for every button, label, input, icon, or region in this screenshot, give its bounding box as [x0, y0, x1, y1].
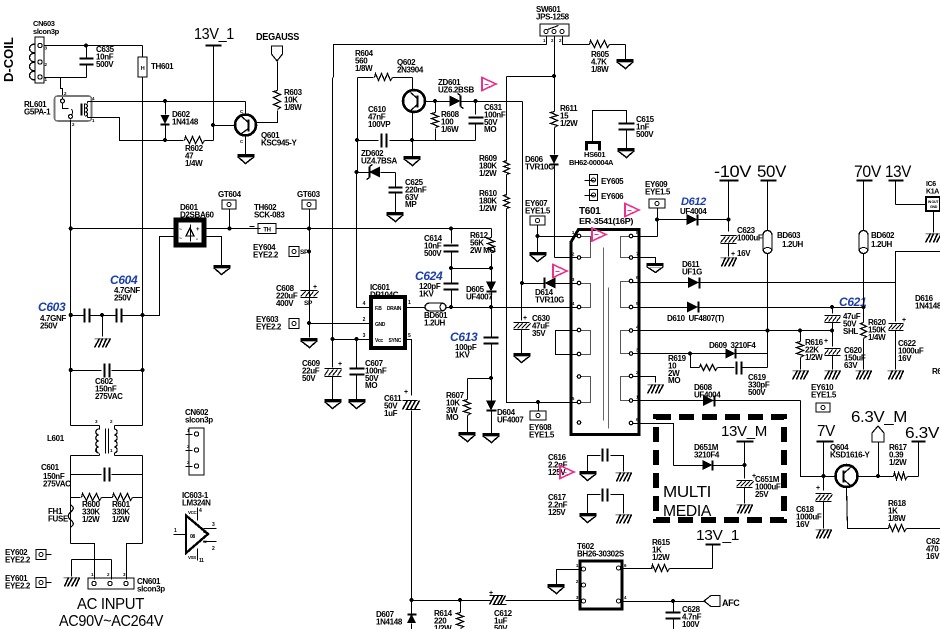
diode D604: [491, 379, 493, 401]
ground: [737, 504, 753, 506]
diode D602: [165, 102, 167, 115]
ground: [412, 141, 414, 157]
T601 windings right: [621, 237, 633, 258]
ground: [387, 212, 404, 215]
svg-text:16V: 16V: [926, 552, 940, 561]
svg-text:EY606: EY606: [601, 192, 624, 201]
svg-text:BH26-30302S: BH26-30302S: [577, 549, 625, 558]
svg-text:GND: GND: [375, 322, 386, 328]
power rail 13V_1 bottom: [712, 546, 714, 569]
svg-text:~: ~: [179, 236, 182, 242]
resistor R614: [458, 598, 462, 602]
capacitor C625: [395, 173, 397, 187]
svg-text:13V_1: 13V_1: [696, 527, 739, 544]
svg-text:GT603: GT603: [297, 190, 321, 199]
svg-text:R6: R6: [932, 367, 940, 376]
svg-text:FUSE: FUSE: [48, 514, 69, 523]
svg-text:BH62-00004A: BH62-00004A: [569, 158, 614, 167]
wire CN603 pin3: [45, 77, 87, 79]
svg-text:16V: 16V: [737, 249, 751, 258]
svg-text:LM324N: LM324N: [182, 498, 211, 507]
junction: [307, 321, 311, 325]
svg-text:1N4148: 1N4148: [376, 617, 403, 626]
pink flag C616: [560, 466, 574, 479]
svg-text:+: +: [816, 485, 820, 492]
ground: [325, 399, 342, 402]
multimedia dashed box: [656, 417, 784, 520]
zener diode ZD602: [358, 172, 370, 174]
wire ZD601 out: [461, 101, 523, 103]
wire Q602 base: [426, 101, 450, 103]
transistor Q602: [403, 90, 425, 112]
wire snubber corner down: [522, 102, 524, 284]
junction: [69, 313, 73, 317]
svg-text:1/2W: 1/2W: [889, 458, 907, 467]
junction: [726, 217, 730, 221]
resistor R616: [800, 331, 802, 342]
svg-text:11: 11: [199, 558, 204, 564]
svg-text:+: +: [902, 317, 906, 324]
svg-text:35V: 35V: [532, 329, 546, 338]
svg-text:1/8W: 1/8W: [591, 65, 609, 74]
junction: [742, 463, 746, 467]
svg-text:UZ4.7BSA: UZ4.7BSA: [361, 156, 397, 165]
junction: [671, 599, 675, 603]
svg-text:EYE1.5: EYE1.5: [529, 430, 555, 439]
connector CN603: [35, 37, 44, 83]
resistor R607: [468, 378, 492, 380]
wire Q601 base: [214, 125, 236, 127]
junction: [552, 74, 556, 78]
pink flag: [482, 78, 496, 91]
wire left vertical: [70, 229, 72, 426]
wire T601 pin4 rail: [633, 330, 833, 332]
wire SYNC line 2: [411, 411, 413, 601]
wire relay to Q601 collector: [88, 101, 246, 103]
capacitor C610: [358, 140, 379, 142]
junction: [449, 266, 453, 270]
svg-text:SHL: SHL: [843, 327, 858, 336]
svg-text:1/2W: 1/2W: [560, 119, 578, 128]
junction: [876, 474, 880, 478]
junction: [140, 313, 144, 317]
junction: [449, 226, 453, 230]
svg-text:GT604: GT604: [218, 190, 242, 199]
resistor R620: [863, 308, 865, 323]
resistor R608: [435, 102, 437, 113]
svg-text:1uF: 1uF: [384, 409, 398, 418]
wire 50V rail down: [767, 254, 769, 368]
svg-text:D610 UF4807(T): D610 UF4807(T): [667, 314, 725, 323]
capacitor C630: [521, 284, 523, 321]
transistor Q601: [235, 115, 256, 136]
wire snubber to pin5: [507, 209, 578, 403]
junction: [830, 305, 834, 309]
junction: [449, 305, 453, 309]
ground: [793, 370, 809, 372]
capacitor C631: [475, 102, 477, 115]
thermistor TH601: [142, 46, 144, 58]
capacitor C601: [71, 474, 102, 476]
wire GND line to IC601: [310, 323, 372, 325]
wire HS601 to C615: [593, 111, 627, 143]
junction: [163, 138, 167, 142]
svg-text:Vcc: Vcc: [375, 338, 383, 344]
ground: [301, 338, 318, 341]
svg-text:UF1G: UF1G: [682, 267, 702, 276]
svg-text:25V: 25V: [755, 490, 769, 499]
ground: [514, 353, 531, 356]
svg-text:125V: 125V: [548, 508, 566, 517]
wire main box vertical: [333, 45, 335, 78]
ground: [648, 384, 664, 386]
wire to T601 pin2: [555, 257, 578, 259]
svg-text:EYE2.2: EYE2.2: [253, 250, 279, 259]
svg-text:1/2W: 1/2W: [652, 553, 670, 562]
ground: [483, 433, 500, 436]
capacitor C614: [451, 229, 453, 244]
svg-text:1/2W: 1/2W: [479, 204, 497, 213]
wire snubber top: [507, 76, 555, 78]
capacitor C628: [673, 602, 675, 612]
capacitor C607: [356, 340, 358, 368]
wire C614-R612 bridge: [452, 268, 492, 270]
svg-text:1N4148: 1N4148: [172, 117, 199, 126]
svg-text:MO: MO: [484, 125, 496, 134]
zener diode ZD601: [450, 96, 461, 107]
junction: [410, 138, 414, 142]
ground: [616, 514, 632, 516]
wire CN601 pin3: [127, 544, 143, 580]
svg-text:1/2W: 1/2W: [434, 624, 452, 629]
svg-text:UF4007: UF4007: [497, 415, 524, 424]
ground: [64, 577, 80, 579]
terminal AFC: [704, 596, 720, 607]
capacitor C635: [86, 46, 88, 59]
junction: [227, 226, 231, 230]
resistor R602: [166, 140, 184, 142]
svg-text:1/2W: 1/2W: [112, 515, 130, 524]
svg-text:50V: 50V: [302, 374, 316, 383]
wire SYNC line: [406, 340, 412, 396]
wire earth: [72, 559, 112, 561]
eyelet EY605: [585, 180, 595, 182]
svg-text:TVR10G: TVR10G: [535, 295, 564, 304]
wire bottom line 2: [506, 600, 581, 602]
svg-text:400V: 400V: [276, 299, 294, 308]
heatsink HS601: [587, 143, 600, 151]
junction: [355, 138, 359, 142]
ground: [580, 471, 597, 474]
eyelet EY606: [585, 195, 595, 197]
resistor R600: [71, 497, 81, 499]
ground: [616, 472, 632, 474]
svg-text:MO: MO: [365, 381, 377, 390]
svg-text:BD603: BD603: [777, 231, 801, 240]
svg-text:1/2W: 1/2W: [479, 169, 497, 178]
resistor R619 and capacitor C619: [691, 354, 700, 368]
svg-text:275VAC: 275VAC: [43, 479, 71, 488]
svg-text:TH601: TH601: [151, 62, 174, 71]
diode D605: [491, 269, 493, 282]
svg-text:EYE2.2: EYE2.2: [5, 581, 31, 590]
inductor BD601: [425, 303, 446, 311]
svg-text:MEDIA: MEDIA: [663, 503, 712, 520]
svg-text:AFC: AFC: [722, 598, 740, 608]
resistor R617: [894, 473, 908, 480]
capacitor C608: [301, 290, 318, 292]
inductor BD603: [763, 231, 772, 254]
svg-text:2N3904: 2N3904: [397, 65, 424, 74]
svg-text:UZ6.2BSB: UZ6.2BSB: [438, 85, 474, 94]
svg-text:1/2W: 1/2W: [805, 353, 823, 362]
svg-text:1/2W: 1/2W: [82, 515, 100, 524]
svg-text:1KV: 1KV: [419, 289, 435, 298]
diode D606: [554, 128, 556, 155]
connector CN601: [88, 578, 134, 589]
ground: [825, 370, 841, 372]
T601 windings left: [579, 237, 591, 258]
resistor R610: [506, 175, 508, 196]
ground: [530, 252, 547, 255]
svg-text:500V: 500V: [424, 249, 442, 258]
svg-text:KSC945-Y: KSC945-Y: [261, 138, 297, 147]
svg-text:6.3V: 6.3V: [905, 425, 940, 442]
pink flag D614: [553, 265, 567, 278]
wire CN603 pin1 to TH601: [45, 45, 143, 47]
capacitor C615: [619, 123, 635, 125]
junction: [307, 249, 311, 253]
svg-text:MO: MO: [668, 376, 680, 385]
svg-text:250V: 250V: [40, 321, 58, 330]
svg-text:D-COIL: D-COIL: [1, 37, 16, 82]
capacitor C609: [332, 340, 334, 368]
svg-text:UF4007: UF4007: [466, 292, 493, 301]
junction: [307, 226, 311, 230]
svg-text:IN OUT: IN OUT: [928, 200, 939, 204]
wire T602 pin4 line: [622, 601, 705, 603]
ground: [548, 584, 565, 587]
svg-text:SCK-083: SCK-083: [254, 210, 285, 219]
wire T602 pin1 gnd: [557, 570, 582, 585]
junction: [163, 99, 167, 103]
resistor R604: [358, 77, 374, 79]
ground: [617, 59, 634, 62]
wire T601 aux loop: [556, 331, 578, 355]
svg-text:~: ~: [179, 227, 182, 233]
svg-text:L601: L601: [47, 434, 65, 443]
ground: [926, 233, 940, 235]
resistor R612: [491, 229, 493, 238]
ground: [459, 432, 476, 435]
wire CN601 pin1: [71, 544, 95, 580]
pink flag T601: [592, 228, 606, 241]
svg-text:13V_1: 13V_1: [194, 26, 234, 43]
svg-text:C621: C621: [839, 295, 867, 309]
svg-text:DEGAUSS: DEGAUSS: [256, 31, 299, 43]
svg-text:TH: TH: [263, 228, 270, 234]
svg-text:100VP: 100VP: [368, 120, 391, 129]
wire bridge minus to gnd: [205, 237, 222, 266]
svg-text:2W MO: 2W MO: [470, 246, 495, 255]
ground: [721, 257, 737, 259]
wire right vertical 2: [142, 456, 144, 544]
ground: [580, 513, 597, 516]
power rail 6.3V: [918, 442, 920, 477]
svg-text:1000uF: 1000uF: [737, 233, 763, 242]
svg-text:VSS: VSS: [188, 555, 196, 560]
svg-text:JPS-1258: JPS-1258: [536, 12, 570, 21]
junction: [84, 43, 88, 47]
diode D614: [523, 283, 545, 285]
svg-text:MP: MP: [405, 200, 417, 209]
svg-text:+: +: [523, 315, 527, 322]
diode D610: [633, 307, 688, 309]
diode D607: [411, 601, 413, 614]
junction: [211, 123, 215, 127]
svg-text:AC90V~AC264V: AC90V~AC264V: [59, 613, 164, 629]
resistor R611: [554, 77, 556, 112]
wire drain line 2: [447, 307, 578, 309]
wire bridge ac2: [143, 237, 177, 316]
svg-text:13V: 13V: [885, 163, 911, 181]
wire drain line: [406, 307, 426, 309]
wire relay aux: [88, 118, 166, 141]
svg-text:EYE1.5: EYE1.5: [811, 390, 837, 399]
svg-text:EYE2.2: EYE2.2: [256, 322, 282, 331]
svg-text:BD602: BD602: [871, 231, 895, 240]
wire right vertical: [142, 316, 144, 426]
svg-text:DRAIN: DRAIN: [387, 306, 402, 312]
svg-text:D609 3210F4: D609 3210F4: [709, 341, 756, 350]
svg-text:13V_M: 13V_M: [721, 423, 767, 440]
T601 core lines: [603, 248, 605, 421]
svg-text:AC INPUT: AC INPUT: [77, 596, 145, 613]
wire to relay coil: [61, 78, 63, 100]
junction: [535, 234, 539, 238]
junction: [688, 351, 692, 355]
svg-text:C624: C624: [415, 269, 443, 283]
svg-text:1/8W: 1/8W: [355, 64, 373, 73]
svg-text:500V: 500V: [96, 60, 114, 69]
resistor R609: [506, 77, 508, 162]
junction: [520, 281, 524, 285]
svg-text:EYE1.5: EYE1.5: [645, 187, 671, 196]
svg-text:63V: 63V: [844, 361, 858, 370]
svg-text:500V: 500V: [636, 130, 654, 139]
svg-text:1.2UH: 1.2UH: [424, 318, 445, 327]
svg-text:EYE1.5: EYE1.5: [525, 206, 551, 215]
wire corner to right edge: [896, 252, 940, 283]
svg-text:C601: C601: [41, 463, 60, 472]
svg-text:08: 08: [190, 534, 195, 540]
pink flag above T601: [625, 204, 639, 217]
junction: [473, 99, 477, 103]
resistor R605: [590, 41, 610, 48]
ground: [102, 316, 104, 337]
wire left vertical 2: [70, 456, 72, 544]
wire EY607 to pin1: [538, 236, 578, 238]
svg-text:100V: 100V: [682, 620, 700, 629]
wire TH601 down: [142, 78, 144, 316]
svg-text:1N4148: 1N4148: [915, 301, 940, 310]
svg-text:3210F4: 3210F4: [694, 450, 720, 459]
junction: [765, 328, 769, 332]
resistor R603: [274, 91, 281, 110]
junction: [69, 368, 73, 372]
svg-text:1/6W: 1/6W: [441, 125, 459, 134]
svg-text:+: +: [338, 361, 342, 368]
svg-text:SP: SP: [304, 300, 313, 307]
svg-text:7V: 7V: [817, 423, 836, 440]
svg-text:1KV: 1KV: [455, 350, 471, 359]
capacitor C651M: [744, 466, 746, 479]
svg-text:+: +: [824, 338, 828, 345]
svg-text:C604: C604: [110, 273, 138, 287]
svg-text:275VAC: 275VAC: [95, 392, 123, 401]
junction: [330, 337, 334, 341]
svg-text:1/4W: 1/4W: [868, 333, 886, 342]
svg-text:KSD1616-Y: KSD1616-Y: [830, 450, 871, 459]
wire ZD602 to F.B pin: [357, 173, 372, 308]
wire T601 pin8: [633, 236, 658, 238]
wire Q601 base2 to R603: [257, 111, 278, 123]
capacitor C623: [728, 220, 730, 232]
junction: [655, 217, 659, 221]
wire T601 bottom pin to multimedia: [633, 424, 674, 466]
ground: [816, 529, 832, 531]
svg-text:1/8W: 1/8W: [888, 514, 906, 523]
wire Vcc line: [333, 339, 372, 341]
svg-text:1/8W: 1/8W: [284, 103, 302, 112]
wire AC line cont2: [277, 228, 492, 230]
svg-text:50V: 50V: [757, 163, 786, 181]
svg-text:50V: 50V: [494, 624, 508, 629]
svg-text:70V: 70V: [854, 163, 881, 181]
svg-text:1.2UH: 1.2UH: [871, 240, 892, 249]
ground: [238, 154, 255, 157]
svg-text:6.3V_M: 6.3V_M: [851, 409, 907, 426]
resistor R601: [102, 497, 113, 499]
svg-text:slcon3p: slcon3p: [185, 415, 213, 424]
svg-text:H: H: [141, 66, 145, 72]
ground: [856, 370, 872, 372]
ground: [214, 265, 231, 268]
wire 70V rail down: [863, 254, 865, 308]
svg-text:EY605: EY605: [601, 177, 624, 186]
junction: [433, 99, 437, 103]
wire C608 chain: [309, 210, 311, 229]
wire feedback vertical: [357, 78, 359, 173]
wire SW601 to primary corner: [334, 45, 547, 78]
svg-text:slcon3p: slcon3p: [33, 27, 60, 36]
capacitor C622: [895, 283, 897, 322]
svg-text:slcon3p: slcon3p: [137, 584, 165, 593]
svg-text:MULTI: MULTI: [663, 484, 711, 501]
eyelet EY608: [538, 403, 540, 412]
svg-text:G5PA-1: G5PA-1: [24, 107, 51, 116]
svg-text:VCC: VCC: [188, 510, 198, 515]
junction: [489, 376, 493, 380]
ground: [888, 370, 904, 372]
svg-text:16V: 16V: [898, 354, 912, 363]
svg-text:C603: C603: [38, 300, 66, 314]
svg-text:MO: MO: [446, 413, 458, 422]
junction: [69, 226, 73, 230]
capacitor C620: [832, 331, 834, 347]
ground: [647, 263, 664, 266]
svg-text:F.B: F.B: [375, 306, 382, 312]
